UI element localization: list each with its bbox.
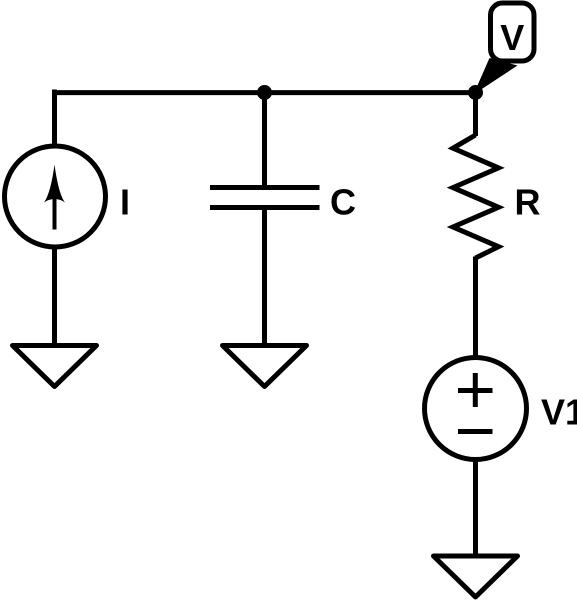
wire top horizontal from I to node V (52, 90, 478, 95)
resistor R (453, 135, 499, 258)
svg-text:R: R (515, 181, 541, 222)
node A junction dot (top of capacitor) (257, 85, 272, 100)
svg-text:V1: V1 (541, 391, 577, 432)
wire from resistor R down to voltage source V1 (473, 257, 478, 359)
ground under voltage source V1 (434, 556, 518, 597)
ground under current source I (13, 346, 97, 387)
ground under capacitor C (223, 346, 307, 387)
wire from voltage source V1 down to ground (473, 459, 478, 556)
net label V pointer wedge (474, 58, 518, 95)
voltage source V1 (425, 358, 527, 460)
node V junction dot (top of resistor) (468, 85, 483, 100)
wire from node A down to capacitor C (262, 92, 267, 188)
current source I (5, 146, 106, 247)
svg-text:I: I (120, 181, 130, 222)
wire from node V down to resistor R (473, 92, 478, 136)
wire from capacitor C down to ground (262, 208, 267, 346)
capacitor C (210, 188, 320, 208)
svg-text:C: C (330, 181, 356, 222)
svg-text:V: V (500, 17, 524, 58)
wire from current source I down to ground (52, 246, 57, 346)
wire from top corner down to current source I (52, 90, 57, 148)
net label V box (491, 3, 535, 61)
